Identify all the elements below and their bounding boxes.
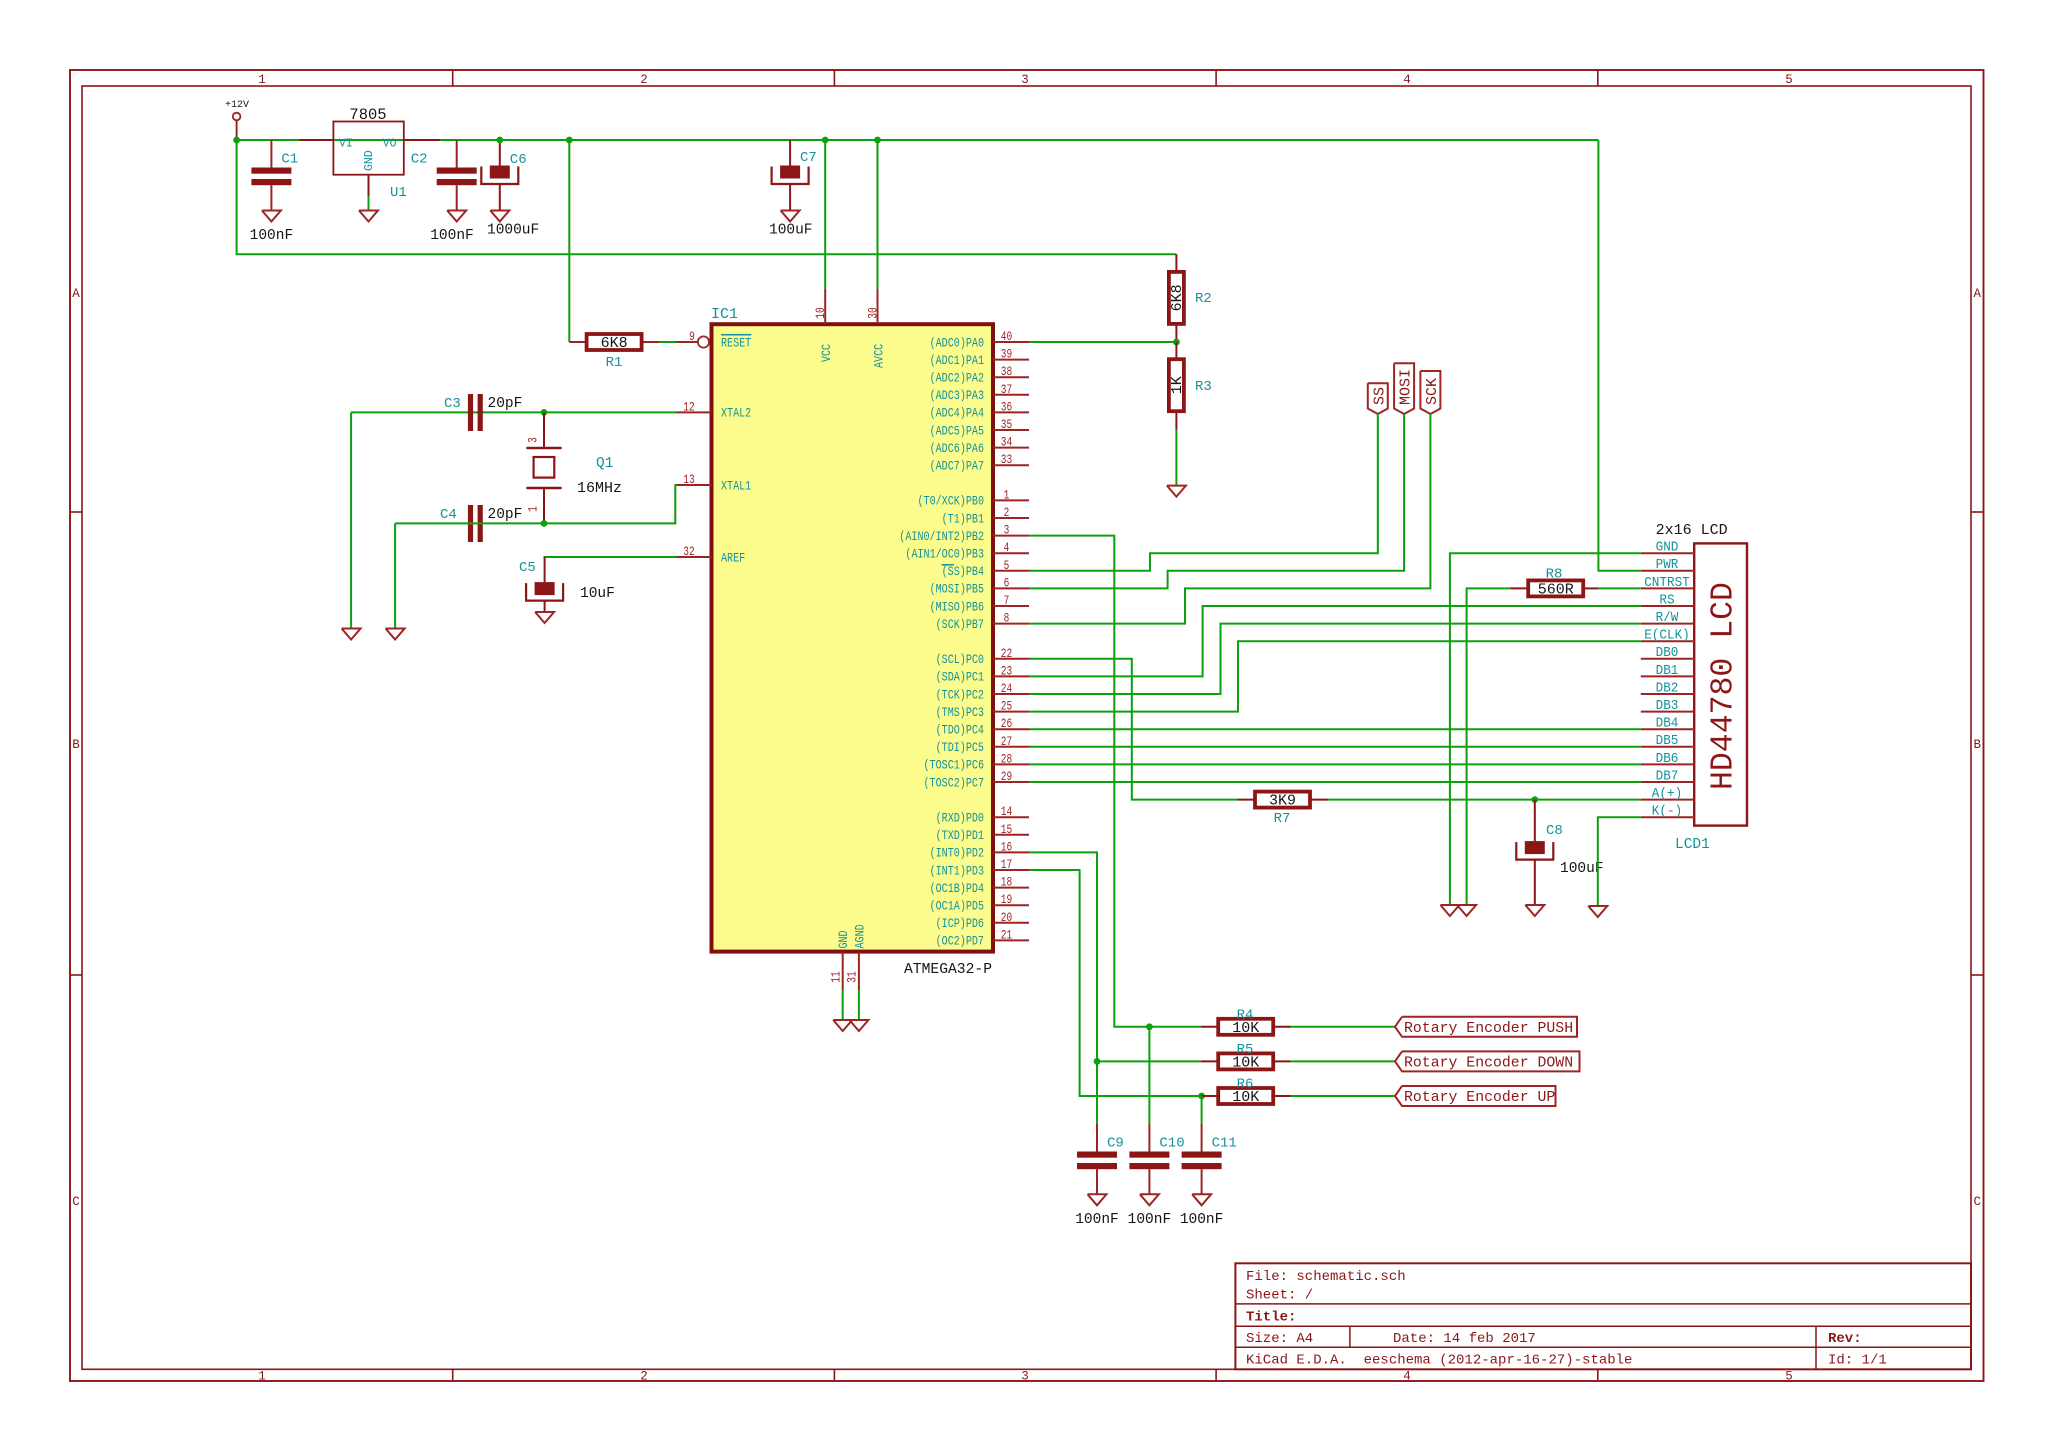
svg-text:2: 2 bbox=[640, 73, 648, 87]
svg-text:RS: RS bbox=[1659, 593, 1674, 608]
svg-text:U1: U1 bbox=[390, 185, 407, 201]
capacitor C11 100nF bbox=[1180, 1124, 1237, 1228]
svg-text:DB6: DB6 bbox=[1656, 752, 1679, 767]
wire IC1 AGND pin to ground bbox=[858, 990, 860, 1020]
svg-text:9: 9 bbox=[689, 329, 695, 344]
svg-text:2x16 LCD: 2x16 LCD bbox=[1656, 522, 1728, 539]
capacitor C10 100nF bbox=[1128, 1124, 1185, 1228]
svg-text:38: 38 bbox=[1001, 364, 1012, 379]
svg-text:5: 5 bbox=[1004, 558, 1010, 573]
svg-text:20: 20 bbox=[1001, 910, 1012, 925]
svg-text:(RXD)PD0: (RXD)PD0 bbox=[936, 811, 984, 826]
wire PC0 to R7 bbox=[1029, 659, 1237, 800]
svg-text:13: 13 bbox=[683, 472, 694, 487]
svg-text:C8: C8 bbox=[1546, 823, 1563, 839]
svg-text:DB5: DB5 bbox=[1656, 734, 1679, 749]
svg-text:Title:: Title: bbox=[1246, 1310, 1296, 1326]
junction at +12V tap bbox=[233, 137, 240, 144]
svg-text:100nF: 100nF bbox=[1128, 1212, 1172, 1228]
svg-text:21: 21 bbox=[1001, 927, 1013, 942]
svg-text:100nF: 100nF bbox=[1180, 1212, 1224, 1228]
svg-text:Size: A4: Size: A4 bbox=[1246, 1331, 1313, 1347]
ground symbol C2 bbox=[447, 211, 466, 222]
wire R4 to PUSH flag bbox=[1291, 1026, 1396, 1028]
resistor R8 560R bbox=[1510, 587, 1598, 589]
svg-text:R/W: R/W bbox=[1656, 611, 1680, 626]
svg-text:3: 3 bbox=[525, 437, 540, 443]
svg-text:37: 37 bbox=[1001, 382, 1012, 397]
svg-text:17: 17 bbox=[1001, 857, 1012, 872]
svg-text:(TXD)PD1: (TXD)PD1 bbox=[936, 828, 985, 843]
svg-text:3: 3 bbox=[1021, 73, 1029, 87]
svg-text:Rev:: Rev: bbox=[1828, 1331, 1862, 1347]
svg-text:4: 4 bbox=[1403, 73, 1411, 87]
svg-text:14: 14 bbox=[1001, 804, 1013, 819]
svg-text:(ADC5)PA5: (ADC5)PA5 bbox=[930, 423, 984, 438]
svg-text:3K9: 3K9 bbox=[1269, 793, 1296, 810]
svg-text:22: 22 bbox=[1001, 646, 1012, 661]
junction VCC bbox=[822, 137, 829, 144]
svg-text:100uF: 100uF bbox=[769, 223, 813, 239]
svg-text:40: 40 bbox=[1001, 329, 1012, 344]
wire C10 drop bbox=[1148, 1027, 1150, 1124]
wire MOSI net bbox=[1029, 414, 1404, 588]
capacitor C3 20pF bbox=[444, 394, 522, 431]
wire DB5 net PC5 bbox=[1029, 746, 1641, 748]
resistor R1 6K8 bbox=[569, 341, 659, 343]
svg-text:C: C bbox=[1974, 1195, 1982, 1209]
global label SCK bbox=[1420, 371, 1441, 414]
junction AVCC bbox=[874, 137, 881, 144]
wire INT1 to R6 row bbox=[1029, 870, 1201, 1096]
svg-text:C11: C11 bbox=[1212, 1136, 1237, 1152]
svg-text:SS: SS bbox=[1371, 387, 1388, 405]
wire R5 to DOWN flag bbox=[1291, 1060, 1396, 1062]
junction R1 drop bbox=[566, 137, 573, 144]
junction XTAL2-crystal bbox=[541, 409, 548, 416]
svg-text:4: 4 bbox=[1004, 540, 1010, 555]
svg-text:(TMS)PC3: (TMS)PC3 bbox=[936, 705, 984, 720]
svg-text:DB0: DB0 bbox=[1656, 646, 1679, 661]
svg-text:Rotary Encoder PUSH: Rotary Encoder PUSH bbox=[1404, 1020, 1573, 1037]
wire R8 to CNTRST bbox=[1598, 587, 1640, 589]
global label SS bbox=[1368, 383, 1389, 414]
svg-text:8: 8 bbox=[1004, 611, 1010, 626]
svg-text:2: 2 bbox=[640, 1370, 648, 1384]
svg-text:DB3: DB3 bbox=[1656, 699, 1679, 714]
svg-text:C7: C7 bbox=[800, 150, 817, 166]
capacitor C1 100nF bbox=[250, 140, 299, 244]
svg-text:(TDO)PC4: (TDO)PC4 bbox=[936, 723, 985, 738]
svg-text:28: 28 bbox=[1001, 751, 1012, 766]
svg-text:AVCC: AVCC bbox=[872, 344, 887, 368]
svg-text:DB4: DB4 bbox=[1656, 717, 1679, 732]
svg-text:39: 39 bbox=[1001, 347, 1012, 362]
svg-text:35: 35 bbox=[1001, 417, 1012, 432]
IC U-IC1 ATMEGA32-P body bbox=[711, 306, 993, 978]
ground symbol C4 bbox=[386, 629, 405, 640]
wire R1 to RESET bbox=[659, 341, 677, 343]
svg-text:(TDI)PC5: (TDI)PC5 bbox=[936, 740, 984, 755]
svg-text:GND: GND bbox=[363, 150, 376, 171]
svg-text:K(-): K(-) bbox=[1652, 805, 1682, 820]
capacitor C8 100uF bbox=[1516, 800, 1603, 905]
svg-text:C2: C2 bbox=[411, 152, 428, 168]
svg-text:IC1: IC1 bbox=[711, 306, 738, 323]
IC1 bottom pins GND 11 AGND 31 bbox=[829, 924, 868, 990]
svg-text:CNTRST: CNTRST bbox=[1644, 576, 1690, 591]
svg-text:100nF: 100nF bbox=[1075, 1212, 1119, 1228]
ground symbol C1 bbox=[262, 211, 281, 222]
svg-text:(TOSC2)PC7: (TOSC2)PC7 bbox=[924, 775, 985, 790]
svg-text:C1: C1 bbox=[281, 152, 298, 168]
svg-text:20pF: 20pF bbox=[488, 396, 523, 412]
wire R/W net PC2 bbox=[1029, 624, 1641, 694]
svg-text:Rotary Encoder UP: Rotary Encoder UP bbox=[1404, 1089, 1555, 1106]
svg-text:6: 6 bbox=[1004, 575, 1010, 590]
ground symbol IC1-AGND bbox=[849, 1020, 868, 1031]
ground symbol C6 bbox=[490, 211, 509, 222]
svg-text:GND: GND bbox=[1656, 541, 1679, 556]
LCD module LCD1 HD44780 bbox=[1656, 522, 1747, 853]
svg-text:C3: C3 bbox=[444, 396, 461, 412]
svg-text:36: 36 bbox=[1001, 399, 1012, 414]
svg-text:(OC1B)PD4: (OC1B)PD4 bbox=[930, 881, 985, 896]
wire R5 row bbox=[1097, 1060, 1201, 1062]
svg-text:(OC1A)PD5: (OC1A)PD5 bbox=[930, 899, 984, 914]
svg-text:(T0/XCK)PB0: (T0/XCK)PB0 bbox=[918, 494, 985, 509]
svg-text:VO: VO bbox=[383, 138, 397, 151]
svg-text:32: 32 bbox=[683, 544, 694, 559]
svg-text:3: 3 bbox=[1021, 1370, 1029, 1384]
svg-text:R5: R5 bbox=[1237, 1042, 1254, 1058]
svg-text:ATMEGA32-P: ATMEGA32-P bbox=[904, 962, 992, 978]
svg-text:R6: R6 bbox=[1237, 1077, 1254, 1093]
svg-text:560R: 560R bbox=[1538, 581, 1574, 598]
svg-text:E(CLK): E(CLK) bbox=[1644, 629, 1690, 644]
resistor R4 10K bbox=[1201, 1026, 1291, 1028]
svg-text:11: 11 bbox=[829, 971, 844, 983]
svg-text:6K8: 6K8 bbox=[1169, 284, 1186, 311]
svg-text:VI: VI bbox=[339, 138, 353, 151]
svg-text:File: schematic.sch: File: schematic.sch bbox=[1246, 1269, 1406, 1285]
svg-text:(ADC1)PA1: (ADC1)PA1 bbox=[930, 353, 985, 368]
svg-text:DB7: DB7 bbox=[1656, 769, 1679, 784]
svg-text:Q1: Q1 bbox=[596, 456, 613, 472]
capacitor C4 20pF bbox=[440, 505, 522, 542]
junction C8 tap bbox=[1531, 796, 1538, 803]
ground symbol C11 bbox=[1192, 1194, 1211, 1205]
svg-text:HD44780 LCD: HD44780 LCD bbox=[1707, 582, 1742, 790]
wire RS net PC1 bbox=[1029, 606, 1641, 676]
wire AVCC riser bbox=[877, 140, 879, 289]
ground symbol C3 bbox=[342, 629, 361, 640]
IC1 top pins VCC 10 AVCC 30 bbox=[813, 289, 886, 368]
svg-text:R7: R7 bbox=[1274, 811, 1291, 827]
svg-text:6K8: 6K8 bbox=[601, 335, 628, 352]
svg-text:18: 18 bbox=[1001, 875, 1012, 890]
svg-text:C5: C5 bbox=[519, 560, 536, 576]
svg-text:(MISO)PB6: (MISO)PB6 bbox=[930, 599, 984, 614]
svg-text:1: 1 bbox=[1004, 487, 1010, 502]
regulator U1 7805 bbox=[300, 106, 441, 201]
svg-text:+12V: +12V bbox=[225, 100, 249, 111]
junction XTAL1-crystal bbox=[541, 520, 548, 527]
junction R2-R3 bbox=[1173, 339, 1180, 346]
svg-text:30: 30 bbox=[866, 307, 881, 318]
capacitor C2 100nF bbox=[411, 140, 477, 244]
svg-text:Sheet: /: Sheet: / bbox=[1246, 1288, 1313, 1304]
wire LCD GND net bbox=[1450, 553, 1641, 905]
svg-text:1: 1 bbox=[258, 1370, 266, 1384]
ground symbol R3 bbox=[1167, 486, 1186, 497]
svg-text:(OC2)PD7: (OC2)PD7 bbox=[936, 934, 984, 949]
power flag +12V bbox=[225, 100, 249, 140]
wire R8 to ground drop bbox=[1467, 588, 1511, 905]
IC1 right-side pins port A B C D bbox=[899, 329, 1029, 949]
svg-text:25: 25 bbox=[1001, 699, 1012, 714]
svg-text:(TCK)PC2: (TCK)PC2 bbox=[936, 687, 984, 702]
svg-text:MOSI: MOSI bbox=[1398, 369, 1415, 405]
wire AREF net bbox=[545, 557, 677, 558]
ground symbol C8 bbox=[1525, 905, 1544, 916]
svg-text:C4: C4 bbox=[440, 507, 457, 523]
wire R7 to LCD A+ bbox=[1328, 799, 1641, 801]
svg-text:A: A bbox=[1974, 287, 1982, 301]
svg-text:Date: 14 feb 2017: Date: 14 feb 2017 bbox=[1393, 1331, 1536, 1347]
svg-text:(AIN0/INT2)PB2: (AIN0/INT2)PB2 bbox=[899, 529, 984, 544]
svg-text:33: 33 bbox=[1001, 452, 1012, 467]
svg-text:12: 12 bbox=[683, 399, 694, 414]
svg-text:C9: C9 bbox=[1107, 1136, 1124, 1152]
junction C9 tap bbox=[1094, 1058, 1101, 1065]
ground symbol U1 bbox=[359, 211, 378, 222]
svg-text:SCK: SCK bbox=[1424, 378, 1441, 405]
wire VCC riser bbox=[824, 140, 826, 289]
ground symbol IC1-GND bbox=[833, 1020, 852, 1031]
wire +5V to R1 bbox=[568, 140, 570, 342]
svg-text:4: 4 bbox=[1403, 1370, 1411, 1384]
crystal Q1 16MHz bbox=[525, 412, 622, 523]
wire INT0 to R5 row bbox=[1029, 852, 1097, 1061]
svg-text:16MHz: 16MHz bbox=[577, 480, 622, 497]
wire E net PC3 bbox=[1029, 641, 1641, 711]
svg-text:5: 5 bbox=[1785, 73, 1793, 87]
svg-text:27: 27 bbox=[1001, 734, 1012, 749]
resistor R3 1K bbox=[1175, 342, 1177, 430]
wire R3 to ground bbox=[1175, 430, 1177, 486]
LCD1 pins bbox=[1641, 541, 1694, 820]
svg-text:(AIN1/OC0)PB3: (AIN1/OC0)PB3 bbox=[905, 547, 984, 562]
svg-text:24: 24 bbox=[1001, 681, 1013, 696]
svg-text:(ADC0)PA0: (ADC0)PA0 bbox=[930, 335, 984, 350]
svg-text:XTAL1: XTAL1 bbox=[721, 478, 751, 493]
junction C10 tap bbox=[1146, 1023, 1153, 1030]
svg-text:C6: C6 bbox=[510, 152, 527, 168]
svg-text:1000uF: 1000uF bbox=[487, 223, 539, 239]
hierarchical label Rotary Encoder PUSH bbox=[1395, 1017, 1577, 1037]
wire +5V main rail bbox=[237, 139, 1599, 141]
wire DB4 net PC4 bbox=[1029, 728, 1641, 730]
ground symbol C9 bbox=[1088, 1194, 1107, 1205]
svg-text:DB1: DB1 bbox=[1656, 664, 1679, 679]
ground symbol R8 bbox=[1457, 905, 1476, 916]
IC1 left-side pins RESET XTAL2 XTAL1 AREF bbox=[677, 329, 752, 565]
wire PA0 to divider bbox=[1029, 341, 1176, 343]
svg-text:16: 16 bbox=[1001, 839, 1012, 854]
svg-text:2: 2 bbox=[1004, 505, 1010, 520]
svg-text:5: 5 bbox=[1785, 1370, 1793, 1384]
svg-text:(SCL)PC0: (SCL)PC0 bbox=[936, 652, 984, 667]
svg-text:C: C bbox=[72, 1195, 80, 1209]
svg-text:(SDA)PC1: (SDA)PC1 bbox=[936, 670, 985, 685]
capacitor C6 1000uF bbox=[481, 140, 539, 239]
RESET pin 9 lead bbox=[677, 341, 698, 343]
svg-text:VCC: VCC bbox=[819, 344, 834, 362]
svg-text:(TOSC1)PC6: (TOSC1)PC6 bbox=[924, 758, 985, 773]
wire C11 drop bbox=[1201, 1096, 1203, 1124]
svg-text:Id: 1/1: Id: 1/1 bbox=[1828, 1353, 1887, 1369]
svg-text:20pF: 20pF bbox=[488, 507, 523, 523]
svg-text:7805: 7805 bbox=[349, 106, 386, 124]
wire R6 to UP flag bbox=[1291, 1095, 1396, 1097]
svg-text:R1: R1 bbox=[606, 355, 623, 371]
svg-text:(ADC6)PA6: (ADC6)PA6 bbox=[930, 441, 984, 456]
svg-text:B: B bbox=[1974, 738, 1982, 752]
wire +12V to lower rail bbox=[237, 140, 1177, 254]
ground symbol C10 bbox=[1140, 1194, 1159, 1205]
svg-text:R4: R4 bbox=[1237, 1008, 1254, 1024]
svg-text:(MOSI)PB5: (MOSI)PB5 bbox=[930, 582, 984, 597]
wire C9 drop bbox=[1096, 1061, 1098, 1124]
ground symbol C7 bbox=[781, 211, 800, 222]
svg-text:26: 26 bbox=[1001, 716, 1012, 731]
resistor R5 10K bbox=[1201, 1060, 1291, 1062]
svg-text:AREF: AREF bbox=[721, 550, 745, 565]
svg-text:29: 29 bbox=[1001, 769, 1012, 784]
svg-text:(ADC7)PA7: (ADC7)PA7 bbox=[930, 459, 984, 474]
resistor R6 10K bbox=[1201, 1095, 1291, 1097]
ground symbol C5 bbox=[535, 612, 554, 623]
wire DB6 net PC6 bbox=[1029, 763, 1641, 765]
junction at C6 bbox=[496, 137, 503, 144]
svg-text:7: 7 bbox=[1004, 593, 1010, 608]
junction C11 tap bbox=[1198, 1093, 1205, 1100]
svg-text:(ICP)PD6: (ICP)PD6 bbox=[936, 916, 984, 931]
svg-text:1: 1 bbox=[525, 506, 540, 512]
svg-text:(SCK)PB7: (SCK)PB7 bbox=[936, 617, 984, 632]
svg-text:(ADC3)PA3: (ADC3)PA3 bbox=[930, 388, 984, 403]
svg-text:1: 1 bbox=[258, 73, 266, 87]
wire LCD K- to ground bbox=[1598, 817, 1641, 906]
svg-text:1K: 1K bbox=[1169, 376, 1186, 394]
hierarchical label Rotary Encoder DOWN bbox=[1395, 1051, 1580, 1071]
svg-text:10uF: 10uF bbox=[580, 586, 615, 602]
svg-text:10: 10 bbox=[813, 307, 828, 318]
wire SS net bbox=[1029, 414, 1378, 571]
svg-text:19: 19 bbox=[1001, 892, 1012, 907]
svg-text:(INT1)PD3: (INT1)PD3 bbox=[930, 863, 984, 878]
wire C3 left to ground drop bbox=[350, 412, 352, 628]
wire XTAL2 net bbox=[351, 411, 676, 413]
wire XTAL1 net bbox=[395, 485, 676, 523]
global label MOSI bbox=[1394, 363, 1415, 414]
svg-text:A(+): A(+) bbox=[1652, 787, 1682, 802]
svg-text:(INT0)PD2: (INT0)PD2 bbox=[930, 846, 984, 861]
svg-text:R3: R3 bbox=[1195, 379, 1212, 395]
wire IC1 GND pin to ground bbox=[842, 990, 844, 1020]
ground symbol LCD-GND bbox=[1440, 905, 1459, 916]
wire +5V drop to LCD PWR bbox=[1598, 140, 1640, 571]
resistor R7 3K9 bbox=[1237, 799, 1328, 801]
hierarchical label Rotary Encoder UP bbox=[1395, 1086, 1556, 1106]
svg-text:100nF: 100nF bbox=[430, 228, 474, 244]
wire PB2 to R4 row bbox=[1029, 536, 1201, 1027]
svg-text:(ADC2)PA2: (ADC2)PA2 bbox=[930, 371, 984, 386]
svg-text:C10: C10 bbox=[1159, 1136, 1184, 1152]
svg-text:B: B bbox=[72, 738, 80, 752]
svg-text:Rotary Encoder DOWN: Rotary Encoder DOWN bbox=[1404, 1054, 1573, 1071]
svg-text:PWR: PWR bbox=[1656, 558, 1679, 573]
svg-text:DB2: DB2 bbox=[1656, 681, 1679, 696]
resistor R2 6K8 bbox=[1175, 254, 1177, 342]
svg-text:KiCad E.D.A. eeschema (2012-a: KiCad E.D.A. eeschema (2012-apr-16-27)-s… bbox=[1246, 1353, 1632, 1369]
svg-text:(ADC4)PA4: (ADC4)PA4 bbox=[930, 406, 985, 421]
svg-text:31: 31 bbox=[845, 971, 860, 983]
svg-text:GND: GND bbox=[836, 930, 851, 948]
svg-text:RESET: RESET bbox=[721, 335, 751, 350]
svg-text:(SS)PB4: (SS)PB4 bbox=[942, 564, 985, 579]
svg-text:R8: R8 bbox=[1546, 567, 1563, 583]
wire SCK net bbox=[1029, 414, 1430, 624]
svg-text:A: A bbox=[72, 287, 80, 301]
svg-text:3: 3 bbox=[1004, 523, 1010, 538]
svg-text:AGND: AGND bbox=[852, 924, 867, 948]
svg-text:100nF: 100nF bbox=[250, 228, 294, 244]
capacitor C7 100uF bbox=[769, 140, 817, 239]
svg-text:LCD1: LCD1 bbox=[1675, 837, 1710, 853]
svg-text:R2: R2 bbox=[1195, 291, 1212, 307]
wire DB7 net PC7 bbox=[1029, 781, 1641, 783]
capacitor C9 100nF bbox=[1075, 1124, 1124, 1228]
wire 7805 GND stub bbox=[368, 196, 370, 211]
capacitor C5 10uF bbox=[519, 557, 615, 612]
title block bbox=[1235, 1263, 1971, 1369]
svg-text:23: 23 bbox=[1001, 663, 1012, 678]
wire C4 left to ground drop bbox=[394, 523, 396, 628]
svg-text:34: 34 bbox=[1001, 435, 1013, 450]
svg-text:XTAL2: XTAL2 bbox=[721, 406, 751, 421]
svg-text:(T1)PB1: (T1)PB1 bbox=[942, 511, 985, 526]
svg-text:15: 15 bbox=[1001, 822, 1012, 837]
ground symbol K- bbox=[1588, 906, 1607, 917]
